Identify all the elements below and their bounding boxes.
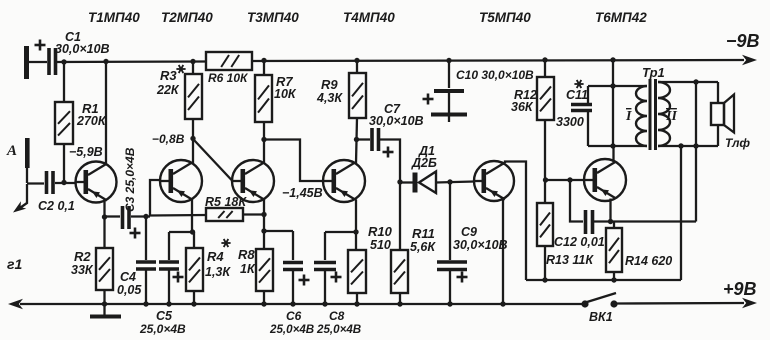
svg-text:С5: С5	[156, 309, 173, 323]
svg-text:1,3К: 1,3К	[205, 265, 231, 279]
wire node to C7	[357, 138, 371, 140]
svg-text:Д2Б: Д2Б	[411, 156, 437, 170]
arrow bottom-left	[8, 299, 23, 309]
wire C12 riser	[570, 180, 583, 222]
wire C9 drop	[449, 182, 451, 260]
wire C8 drop	[324, 232, 326, 260]
node secondary top riser	[693, 79, 698, 84]
svg-text:−9В: −9В	[726, 31, 760, 51]
node C12 tap	[567, 177, 572, 182]
wire speaker top	[717, 82, 719, 103]
wire T1 emitter down	[103, 199, 105, 217]
svg-text:−1,45В: −1,45В	[282, 186, 323, 200]
wire emitter node to C5	[169, 231, 192, 233]
wire T6 emitter down	[609, 199, 611, 222]
label +9В	[723, 279, 757, 299]
wire -9V rail	[252, 60, 744, 61]
wire T5 emitter to rail	[502, 199, 504, 304]
svg-text:4,3К: 4,3К	[316, 91, 343, 105]
capacitor C3	[123, 147, 141, 238]
resistor R11	[391, 182, 436, 293]
wire R13 to bus	[544, 246, 546, 280]
wire primary bottom	[588, 145, 647, 147]
capacitor C10	[423, 68, 535, 115]
node C5-rail	[166, 301, 171, 306]
node T6 emitter	[608, 219, 613, 224]
wire feedback bus	[526, 279, 681, 281]
svg-text:25,0×4В: 25,0×4В	[269, 323, 314, 336]
wire T5 collector	[505, 162, 526, 281]
wire C6 to rail	[292, 270, 294, 304]
capacitor C4	[117, 262, 156, 297]
wire base node to T6	[545, 179, 584, 181]
node C9 tap	[447, 179, 452, 184]
transistor T2	[160, 160, 202, 202]
svg-text:Т2МП40: Т2МП40	[161, 10, 213, 25]
transistor T4	[323, 160, 365, 202]
svg-text:А: А	[6, 143, 17, 159]
svg-text:R4: R4	[207, 249, 224, 264]
svg-text:С4: С4	[120, 270, 136, 284]
label Тр1	[642, 65, 665, 80]
arrow +9V rail end	[742, 298, 757, 308]
transformer winding I	[625, 86, 647, 146]
wire C10 drop	[448, 61, 450, 89]
wire R3 drop	[192, 62, 194, 75]
svg-text:II: II	[665, 109, 677, 124]
wire R14 to bus	[613, 272, 615, 280]
wire bottom rail right	[617, 302, 744, 305]
node R1-base T1	[61, 180, 66, 185]
svg-text:Т3МП40: Т3МП40	[247, 10, 299, 25]
wire R11 to rail	[399, 293, 401, 304]
node secondary bottom riser	[678, 143, 683, 148]
capacitor C2	[38, 171, 75, 213]
wire T4 emitter down	[355, 200, 357, 251]
node primary bottom	[610, 143, 615, 148]
node T1 emitter	[102, 214, 107, 219]
resistor R1	[55, 101, 107, 144]
node R14-bus	[611, 277, 616, 282]
wire coupling T3 to T4 base	[264, 140, 323, 182]
node R9-rail	[354, 58, 359, 63]
wire R9 drop	[356, 61, 358, 74]
node R8-rail	[261, 301, 266, 306]
svg-text:С11: С11	[566, 88, 588, 102]
svg-text:R10: R10	[368, 224, 393, 239]
svg-text:г1: г1	[7, 256, 22, 272]
transistor T3	[232, 160, 274, 202]
resistor R4	[186, 232, 231, 291]
wire T6 collector up	[612, 146, 614, 162]
diode D1 Д2Б	[411, 144, 437, 193]
node C10-rail	[446, 58, 451, 63]
label T1 МП40	[88, 10, 140, 25]
headphone Тлф	[711, 95, 750, 151]
node T4 collector-C7	[354, 137, 359, 142]
wire emitter to C3	[105, 215, 121, 217]
svg-text:R14 620: R14 620	[625, 254, 672, 268]
resistor R6	[206, 52, 252, 85]
capacitor C7	[369, 102, 424, 158]
wire input arrow	[13, 184, 27, 213]
svg-text:С2 0,1: С2 0,1	[38, 199, 75, 213]
wire T2 base riser	[150, 180, 160, 217]
svg-text:С6: С6	[286, 309, 302, 323]
wire T2 collector to T3 base (diagonal)	[194, 140, 233, 181]
resistor R13	[537, 180, 594, 267]
node C6 tap	[261, 228, 266, 233]
svg-text:R2: R2	[74, 249, 91, 264]
terminal post A	[6, 138, 30, 168]
wire secondary top	[658, 81, 718, 83]
svg-text:Тр1: Тр1	[642, 65, 665, 80]
svg-text:С9: С9	[461, 225, 477, 239]
label T6 МП42	[595, 10, 647, 25]
node C3-C4-R5	[143, 214, 148, 219]
node C8 tap	[353, 229, 358, 234]
wire secondary bottom	[658, 145, 718, 147]
label -0,8В	[152, 132, 185, 146]
wire C5 to rail	[168, 270, 170, 304]
node T3 collector	[261, 137, 266, 142]
wire C7 to D1 node	[380, 140, 400, 183]
wire to D1	[400, 181, 413, 183]
node secondary bottom riser2	[693, 143, 698, 148]
svg-text:33К: 33К	[71, 263, 94, 277]
wire C4 drop	[145, 217, 147, 261]
wire node to R5	[150, 214, 206, 217]
svg-text:22К: 22К	[156, 83, 180, 97]
wire C2 to T1 base	[55, 182, 76, 184]
node R7-rail	[261, 58, 266, 63]
node R2-rail	[102, 301, 107, 306]
svg-text:R8: R8	[238, 247, 255, 262]
svg-text:С10 30,0×10В: С10 30,0×10В	[456, 68, 534, 82]
svg-text:С3 25,0×4В: С3 25,0×4В	[123, 147, 137, 212]
capacitor C5	[139, 262, 186, 336]
label -5,9В	[69, 145, 103, 159]
wire terminal to C1	[28, 61, 47, 63]
wire C4 to rail	[145, 270, 147, 304]
svg-text:3300: 3300	[556, 115, 584, 129]
svg-text:30,0×10В: 30,0×10В	[453, 238, 508, 252]
resistor R2	[71, 248, 113, 290]
node T2 emitter	[190, 229, 195, 234]
node R12-rail	[542, 57, 547, 62]
node R11-rail	[397, 301, 402, 306]
transformer winding II	[658, 82, 677, 146]
node C4-rail	[143, 301, 148, 306]
resistor R9	[316, 73, 366, 118]
svg-text:Т5МП40: Т5МП40	[479, 10, 531, 25]
node C6-rail	[290, 301, 295, 306]
wire T3 emitter down	[263, 200, 265, 250]
wire R9 to T4 collector	[356, 118, 357, 163]
wire to C6	[264, 230, 293, 232]
node R5-emitter	[261, 212, 266, 217]
wire R2 drop	[103, 217, 105, 248]
label -9В	[726, 31, 760, 51]
wire D1 to T5 base	[436, 182, 474, 183]
wire C8 to rail	[324, 270, 326, 304]
transformer core	[649, 79, 658, 150]
svg-text:ВК1: ВК1	[589, 310, 613, 324]
node -0,8V	[190, 136, 195, 141]
wire C5 drop	[168, 232, 170, 260]
node C8-rail	[322, 301, 327, 306]
arrow -9V rail end	[742, 55, 757, 65]
node D1-R11	[397, 179, 402, 184]
svg-text:R3: R3	[160, 68, 177, 83]
svg-text:270К: 270К	[76, 114, 107, 128]
label T2 МП40	[161, 10, 213, 25]
node T5 emitter-rail	[500, 301, 505, 306]
wire A terminal down	[26, 168, 28, 183]
wire R12 to base node	[544, 120, 546, 180]
svg-text:510: 510	[370, 238, 391, 252]
svg-text:−0,8В: −0,8В	[152, 132, 185, 146]
node R10-rail	[354, 301, 359, 306]
svg-text:Т6МП42: Т6МП42	[595, 10, 647, 25]
capacitor C9	[437, 225, 508, 283]
label -1,45В	[282, 186, 323, 200]
node R3-rail	[190, 59, 195, 64]
transistor T1	[76, 162, 117, 203]
label T5 МП40	[479, 10, 531, 25]
wire C9 to rail	[449, 270, 451, 304]
wire R10 to rail	[356, 293, 358, 304]
resistor R12	[511, 77, 554, 120]
wire R2 to rail	[103, 290, 105, 304]
svg-text:R9: R9	[321, 77, 338, 92]
wire C1 to R6 (left rail section)	[57, 60, 206, 63]
resistor R8	[238, 247, 273, 291]
wire R8 to rail	[263, 291, 265, 304]
wire speaker bottom	[717, 125, 719, 146]
svg-text:R6 10К: R6 10К	[208, 71, 249, 85]
transistor T5	[474, 161, 514, 201]
label T3 МП40	[247, 10, 299, 25]
label г1	[7, 256, 22, 272]
transistor T6	[584, 159, 626, 201]
svg-text:R11: R11	[412, 226, 435, 241]
wire C10 stub	[448, 117, 450, 123]
svg-text:0,05: 0,05	[117, 283, 142, 297]
resistor R3	[156, 65, 202, 119]
svg-text:5,6К: 5,6К	[410, 240, 436, 254]
svg-text:10К: 10К	[274, 87, 297, 101]
svg-text:С8: С8	[329, 309, 345, 323]
wire A to C2	[27, 182, 44, 184]
resistor R14	[606, 222, 672, 273]
capacitor C8	[314, 263, 361, 337]
wire primary top	[588, 85, 647, 87]
svg-text:Тлф: Тлф	[725, 136, 750, 150]
resistor R5	[205, 195, 247, 221]
wire R4 to rail	[193, 291, 195, 304]
wire emitter bus	[594, 220, 696, 222]
node T1 collector-rail	[103, 59, 108, 64]
wire R12 drop	[544, 60, 546, 77]
svg-text:Т4МП40: Т4МП40	[343, 10, 395, 25]
wire R7 to T3 collector	[263, 122, 265, 163]
node T6 base	[543, 177, 548, 182]
wire riser II-top to emitter bus	[695, 82, 697, 222]
label T4 МП40	[343, 10, 395, 25]
capacitor C12	[554, 210, 605, 249]
wire rail to Tr1 primary	[612, 60, 614, 146]
resistor R10	[348, 224, 393, 293]
wire C6 drop	[292, 231, 294, 260]
svg-text:I: I	[625, 109, 632, 124]
svg-text:25,0×4В: 25,0×4В	[316, 323, 361, 336]
wire T2 emitter down	[191, 200, 193, 233]
svg-text:30,0×10В: 30,0×10В	[369, 114, 424, 128]
node R13-bus	[542, 277, 547, 282]
svg-text:25,0×4В: 25,0×4В	[139, 322, 186, 336]
node primary top	[610, 83, 615, 88]
terminal post top-left	[24, 46, 29, 79]
wire R1 to base node	[63, 144, 65, 183]
node R1-rail	[61, 59, 66, 64]
wire T1 collector up	[105, 62, 107, 166]
svg-text:Т1МП40: Т1МП40	[88, 10, 140, 25]
capacitor C1	[35, 30, 110, 75]
wire riser II-bottom to feedback bus	[680, 146, 682, 280]
svg-text:36К: 36К	[511, 100, 534, 114]
wire C3 to node	[131, 215, 150, 217]
node R4-rail	[191, 301, 196, 306]
wire R1 drop	[63, 62, 65, 102]
svg-text:−5,9В: −5,9В	[69, 145, 103, 159]
wire bottom rail left	[20, 303, 582, 305]
switch ВК1	[581, 293, 617, 324]
svg-text:С12 0,01: С12 0,01	[554, 235, 605, 249]
capacitor C11	[556, 80, 592, 146]
svg-text:1К: 1К	[240, 262, 256, 276]
resistor R7	[255, 74, 297, 122]
svg-text:30,0×10В: 30,0×10В	[55, 42, 110, 56]
svg-text:+9В: +9В	[723, 279, 757, 299]
node Tr1-rail	[610, 57, 615, 62]
ground	[90, 305, 121, 319]
wire R5 to T3 emitter node	[243, 213, 264, 215]
svg-text:R13 11К: R13 11К	[546, 253, 594, 267]
wire to C8	[325, 231, 356, 233]
wire R7 drop	[263, 61, 265, 76]
capacitor C6	[269, 263, 314, 337]
node C9-rail	[447, 301, 452, 306]
wire R3 to T2 collector	[192, 119, 194, 163]
